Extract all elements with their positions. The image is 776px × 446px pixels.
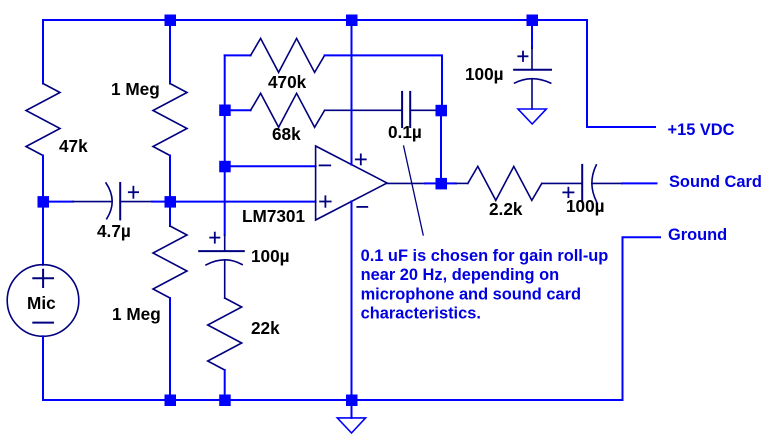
source Mic xyxy=(7,265,79,337)
node feedback right xyxy=(436,105,448,117)
resistor R 47k xyxy=(26,84,60,156)
capacitor C 4.7u xyxy=(49,201,74,203)
wire mic top lead xyxy=(42,207,44,265)
svg-text:22k: 22k xyxy=(251,318,280,338)
wire 100u to sound card xyxy=(592,182,622,184)
wire output to 2.2k xyxy=(447,182,457,184)
wire 1Meg lower top lead xyxy=(169,207,171,226)
wire 1Meg upper bottom lead xyxy=(169,156,171,197)
node inverting input xyxy=(219,161,231,173)
svg-text:2.2k: 2.2k xyxy=(489,199,523,219)
svg-text:68k: 68k xyxy=(272,124,301,144)
svg-text:characteristics.: characteristics. xyxy=(361,305,481,323)
wire feedback right column xyxy=(440,116,442,178)
wire inverting input xyxy=(230,165,315,167)
wire noninverting input xyxy=(176,201,316,203)
node junction squares xyxy=(38,15,539,407)
wire 47k top lead xyxy=(42,20,44,84)
svg-text:1 Meg: 1 Meg xyxy=(112,304,161,324)
wire 100u top-right top lead xyxy=(531,26,533,49)
resistor R 470k xyxy=(225,54,251,56)
svg-text:4.7µ: 4.7µ xyxy=(97,221,131,241)
svg-text:100µ: 100µ xyxy=(566,196,605,216)
svg-text:microphone and sound card: microphone and sound card xyxy=(361,285,581,303)
ground (top right) xyxy=(518,109,546,124)
capacitor C 100u (sound card) xyxy=(581,165,583,202)
wire opamp V- xyxy=(351,201,353,394)
svg-text:47k: 47k xyxy=(59,136,88,156)
svg-text:LM7301: LM7301 xyxy=(242,206,305,226)
svg-text:Ground: Ground xyxy=(668,226,727,244)
wire 1Meg lower bottom lead xyxy=(169,298,171,400)
svg-text:470k: 470k xyxy=(268,72,307,92)
wire output xyxy=(387,182,425,184)
wire ground branch xyxy=(623,237,661,400)
resistor R 2.2k xyxy=(468,166,542,200)
wire 100u to ground symbol xyxy=(531,80,533,110)
wire 68k to 0.1u xyxy=(325,109,403,111)
capacitor C 100u (top right) xyxy=(514,69,551,71)
node bottom rail / 1Meg xyxy=(165,395,177,407)
capacitor C 100u (mid) xyxy=(199,250,244,252)
node top rail / 1Meg xyxy=(165,15,177,27)
node output xyxy=(436,178,448,190)
wire 100u mid bottom lead xyxy=(224,261,226,299)
node feedback left xyxy=(219,105,231,117)
node bottom rail / V- ground xyxy=(346,395,358,407)
resistor R 22k xyxy=(208,298,242,370)
node mic / 47k / 4.7u xyxy=(38,196,50,208)
svg-text:near 20 Hz, depending on: near 20 Hz, depending on xyxy=(361,266,560,284)
resistor R 1 Meg (lower) xyxy=(153,226,187,298)
wire 0.1u to feedback node xyxy=(410,109,435,111)
resistor R 1 Meg (upper) xyxy=(153,84,187,156)
wire feedback left column xyxy=(224,55,226,104)
wire +15 VDC branch xyxy=(587,20,655,127)
op-amp U1 LM7301 xyxy=(316,146,387,220)
svg-text:100µ: 100µ xyxy=(251,246,290,266)
node 4.7u / 1Meg lower xyxy=(165,196,177,208)
wire top rail xyxy=(43,19,587,21)
wire 47k bottom lead xyxy=(42,156,44,197)
wire mic bottom lead xyxy=(42,336,44,400)
svg-text:0.1 uF is chosen for gain roll: 0.1 uF is chosen for gain roll-up xyxy=(361,247,609,265)
capacitor C 0.1u xyxy=(401,92,403,127)
resistor R 68k xyxy=(230,109,250,111)
svg-text:+15 VDC: +15 VDC xyxy=(668,121,735,139)
wire 1Meg top lead xyxy=(169,20,171,84)
wire 2.2k to 100u xyxy=(542,182,582,184)
node bottom rail / 22k xyxy=(219,395,231,407)
node top rail / V+ xyxy=(346,15,358,27)
wire 22k bottom lead xyxy=(224,370,226,400)
annotation leader line xyxy=(404,146,424,235)
svg-text:0.1µ: 0.1µ xyxy=(388,122,422,142)
wire 100u mid top lead xyxy=(224,235,226,251)
wire opamp V+ xyxy=(351,26,353,165)
svg-text:1 Meg: 1 Meg xyxy=(111,79,160,99)
wire bottom ground rail xyxy=(43,399,623,401)
ground (bottom center) xyxy=(351,406,353,418)
node top rail / 100u xyxy=(527,15,539,27)
svg-text:100µ: 100µ xyxy=(465,64,504,84)
svg-text:Mic: Mic xyxy=(27,293,56,313)
svg-text:Sound Card: Sound Card xyxy=(669,173,762,191)
